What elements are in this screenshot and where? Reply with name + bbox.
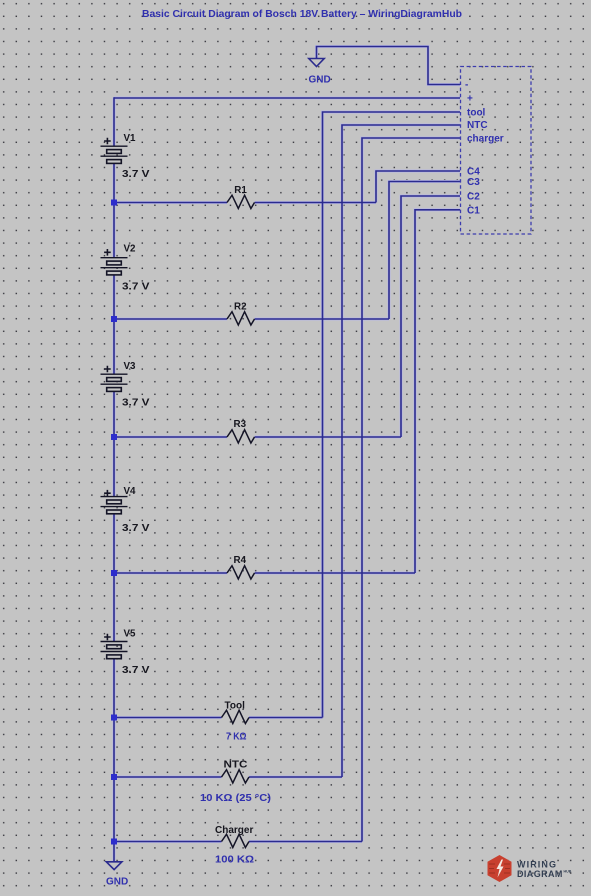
svg-text:7 KΩ: 7 KΩ bbox=[226, 732, 247, 743]
svg-text:tool: tool bbox=[467, 108, 486, 119]
svg-text:NTC: NTC bbox=[467, 120, 488, 131]
svg-text:Tool: Tool bbox=[225, 700, 246, 711]
svg-text:charger: charger bbox=[467, 134, 504, 145]
svg-text:3.7 V: 3.7 V bbox=[122, 169, 150, 180]
svg-text:Basic Circuit Diagram of Bosch: Basic Circuit Diagram of Bosch 18V Batte… bbox=[142, 8, 462, 20]
svg-text:WIRING: WIRING bbox=[517, 860, 557, 870]
svg-text:GND: GND bbox=[309, 75, 331, 86]
svg-text:3.7 V: 3.7 V bbox=[122, 397, 150, 408]
svg-text:GND: GND bbox=[106, 877, 128, 888]
svg-text:R4: R4 bbox=[234, 555, 247, 566]
svg-text:NTC: NTC bbox=[224, 760, 248, 771]
svg-text:R1: R1 bbox=[234, 185, 247, 196]
svg-text:100 KΩ: 100 KΩ bbox=[215, 855, 254, 866]
svg-text:-: - bbox=[465, 80, 468, 91]
svg-text:+: + bbox=[467, 94, 473, 105]
svg-text:Charger: Charger bbox=[215, 825, 253, 836]
svg-text:C4: C4 bbox=[467, 167, 480, 178]
svg-text:HUB: HUB bbox=[564, 870, 572, 874]
svg-text:3.7 V: 3.7 V bbox=[122, 523, 150, 534]
svg-text:V1: V1 bbox=[124, 133, 137, 144]
svg-text:R3: R3 bbox=[234, 419, 247, 430]
svg-text:V4: V4 bbox=[124, 486, 137, 497]
svg-text:C1: C1 bbox=[467, 206, 480, 217]
svg-text:R2: R2 bbox=[234, 302, 247, 313]
svg-text:10 KΩ (25 °C): 10 KΩ (25 °C) bbox=[200, 793, 271, 804]
svg-text:DIAGRAM: DIAGRAM bbox=[517, 869, 563, 879]
svg-text:V2: V2 bbox=[124, 244, 137, 255]
svg-text:C2: C2 bbox=[467, 192, 480, 203]
svg-text:3.7 V: 3.7 V bbox=[122, 282, 150, 293]
svg-text:V5: V5 bbox=[124, 628, 137, 639]
svg-text:C3: C3 bbox=[467, 177, 480, 188]
svg-text:3.7 V: 3.7 V bbox=[122, 665, 150, 676]
svg-text:V3: V3 bbox=[124, 361, 137, 372]
